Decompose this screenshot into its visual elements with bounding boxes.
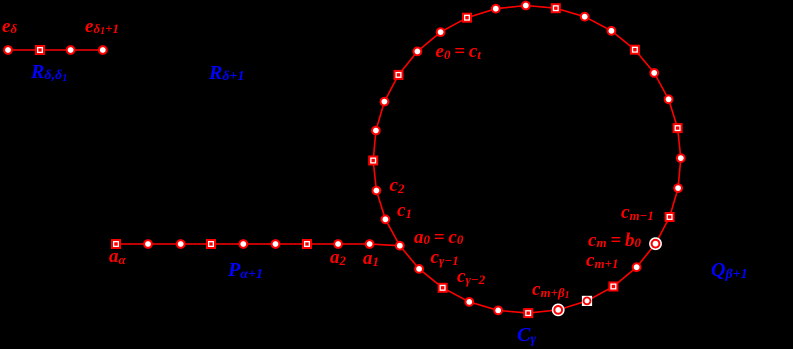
- label c_m-1: [621, 203, 654, 222]
- label e0 = c_t: [436, 42, 481, 61]
- node cycle vertex 16 (circle vertex): [649, 68, 659, 78]
- label e_delta: [2, 17, 17, 36]
- node cycle vertex 9 (square vertex): [462, 13, 472, 23]
- node cycle vertex 4 (circle vertex): [371, 126, 381, 136]
- node a7 (circle vertex): [176, 239, 186, 249]
- node c_m+1 (circle vertex): [632, 262, 642, 272]
- label c_gamma-1: [431, 248, 459, 267]
- label a0 = c0: [414, 228, 463, 247]
- node cycle vertex 30 (square vertex): [438, 283, 448, 293]
- node cycle vertex 29 (circle vertex): [464, 297, 474, 307]
- label c_m+1: [586, 251, 618, 270]
- node a2 (circle vertex): [333, 239, 343, 249]
- node c_m = b0 (circle vertex with white halo): [649, 237, 662, 250]
- node cycle vertex 15 (square vertex): [630, 45, 640, 55]
- node cycle vertex 24 (square vertex): [608, 282, 618, 292]
- node cycle vertex 20 (circle vertex): [673, 183, 683, 193]
- label c_m+beta1: [532, 280, 570, 299]
- node cycle vertex 10 (circle vertex): [491, 4, 501, 14]
- node R path square (square vertex): [35, 45, 45, 55]
- node c0 = a0 (circle vertex): [395, 241, 405, 251]
- node cycle vertex 8 (circle vertex): [436, 27, 446, 37]
- label R_delta+1: [209, 63, 245, 83]
- node e_delta (circle vertex): [3, 45, 13, 55]
- node cycle vertex 27 (square vertex): [523, 308, 533, 318]
- node cycle vertex 14 (circle vertex): [607, 26, 617, 36]
- label a2: [330, 248, 346, 267]
- node cycle vertex 21 (square vertex): [665, 212, 675, 222]
- label c_m = b0: [588, 231, 641, 250]
- node cycle vertex 28 (circle vertex): [493, 306, 503, 316]
- node a5 (circle vertex): [238, 239, 248, 249]
- node a1 (circle vertex): [365, 239, 375, 249]
- node c_gamma-1 (circle vertex): [414, 264, 424, 274]
- node c1 (circle vertex): [381, 214, 391, 224]
- node a6 (square vertex): [206, 239, 216, 249]
- node a8 (circle vertex): [143, 239, 153, 249]
- node a_alpha (square vertex): [111, 239, 121, 249]
- node R path circle 3 (circle vertex): [66, 45, 76, 55]
- node cycle vertex 19 (circle vertex): [676, 153, 686, 163]
- node cycle vertex 6 (square vertex): [394, 70, 404, 80]
- node a3 (square vertex): [302, 239, 312, 249]
- label c2: [390, 176, 405, 195]
- label C_gamma: [517, 325, 536, 345]
- wire: path R_delta,delta1 edges: [8, 49, 103, 51]
- node cycle vertex 12 (square vertex): [551, 3, 561, 13]
- node e_delta1+1 (circle vertex): [98, 45, 108, 55]
- label e_delta1+1: [85, 17, 119, 36]
- label a_alpha: [109, 247, 126, 266]
- node c2 (circle vertex): [372, 186, 382, 196]
- label a1: [363, 249, 379, 268]
- node cycle vertex 7 (circle vertex): [413, 47, 423, 57]
- node cycle vertex 13 (circle vertex): [580, 12, 590, 22]
- node cycle vertex 17 (circle vertex): [664, 94, 674, 104]
- node cycle vertex 11 (circle vertex): [521, 1, 531, 11]
- label c1: [397, 201, 412, 220]
- label c_gamma-2: [457, 267, 485, 286]
- label Q_beta+1: [711, 260, 748, 280]
- node cycle vertex 5 (circle vertex): [380, 97, 390, 107]
- label P_alpha+1: [228, 260, 263, 280]
- node c_m between (circle vertex on white square): [582, 296, 592, 306]
- node a4 (circle vertex): [271, 239, 281, 249]
- node c_m+beta1 (circle vertex with white halo): [552, 304, 565, 317]
- wire: path P_alpha+1 edges: [116, 244, 400, 246]
- label R_delta,delta1: [31, 62, 67, 82]
- node cycle vertex 18 (square vertex): [673, 123, 683, 133]
- node cycle vertex 3 (square vertex): [368, 156, 378, 166]
- wire: cycle C_gamma edges (32-gon): [373, 6, 681, 314]
